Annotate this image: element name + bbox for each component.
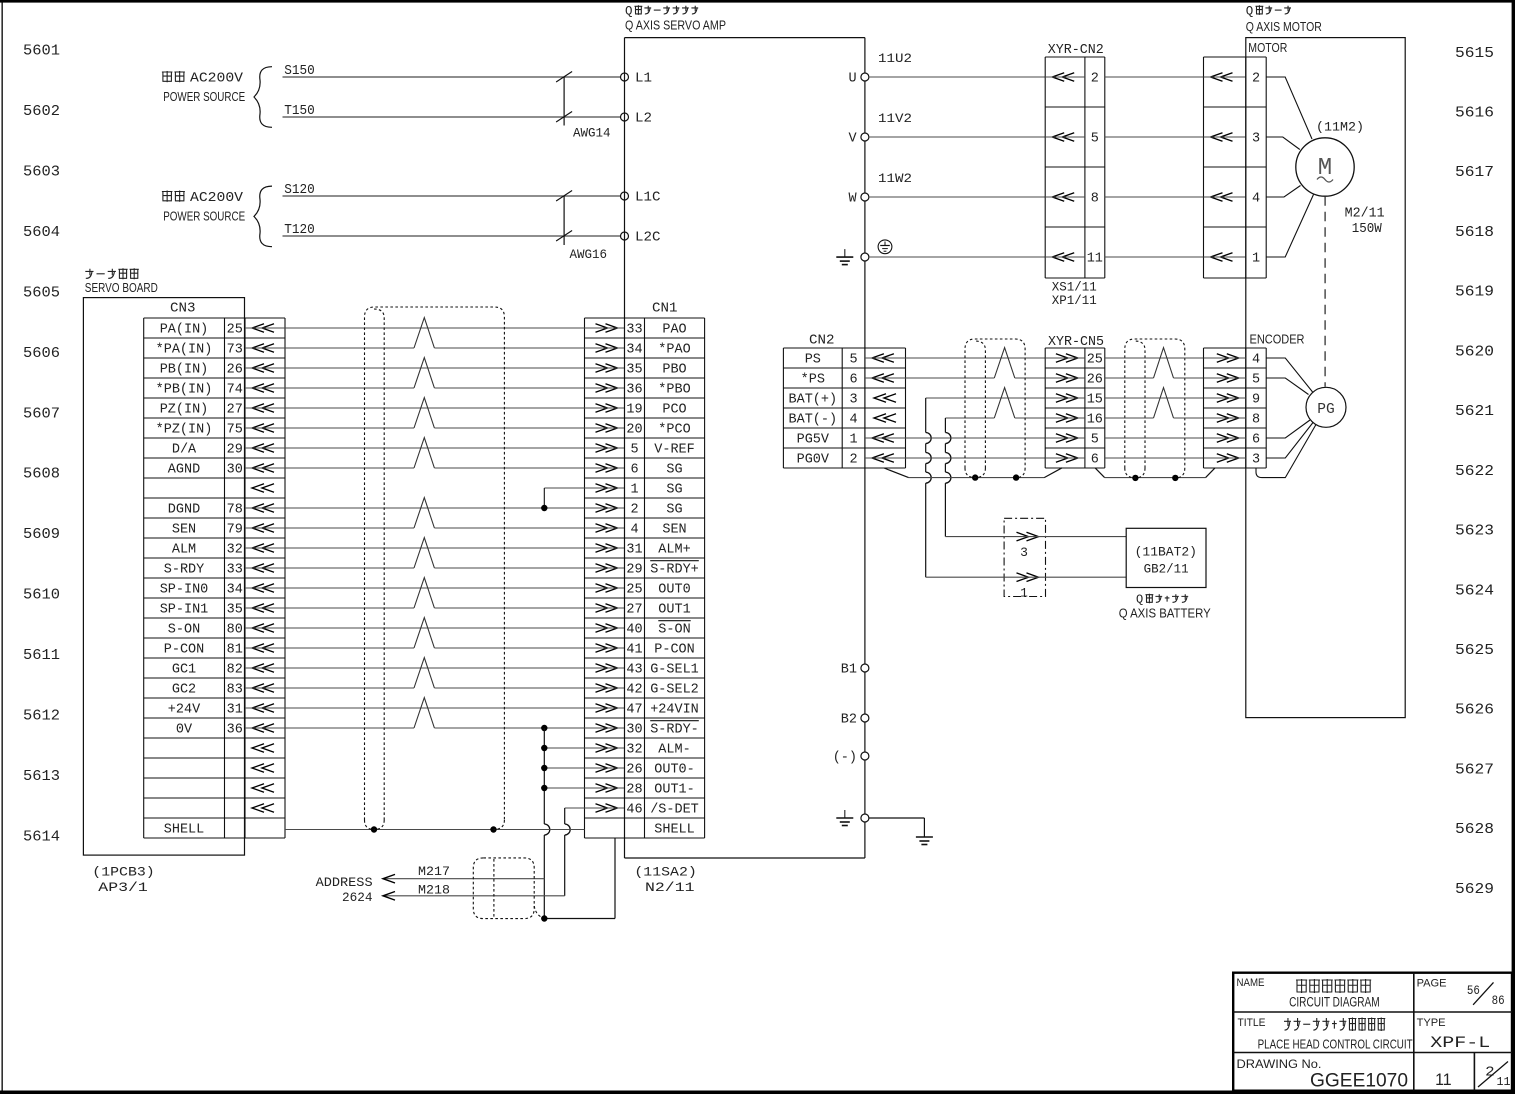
motor connector pin 4 (1204, 192, 1261, 207)
wire shield drain to CN1 shell bottom (544, 838, 615, 919)
terminal PE with ground symbol (836, 249, 869, 265)
title block TYPE cell XPF-L (1417, 1017, 1491, 1052)
svg-text:6: 6 (849, 373, 857, 388)
svg-text:2: 2 (1252, 72, 1260, 87)
CN3 pin 75 *PZ(IN) (156, 423, 243, 438)
svg-text:V: V (848, 132, 857, 147)
CN3 row 19 receptacle arrow (252, 684, 274, 693)
svg-text:GC2: GC2 (172, 683, 196, 698)
CN1 row 10 plug arrow (585, 504, 625, 513)
CN3 row 21 receptacle arrow (252, 724, 274, 733)
svg-text:6: 6 (630, 463, 638, 478)
svg-text:PAGE: PAGE (1417, 977, 1447, 989)
svg-text:25: 25 (1087, 353, 1103, 368)
wire XYR-CN2 to motor connector row 1 (1105, 76, 1204, 78)
wire encoder pin5 to PG (1266, 378, 1308, 395)
svg-text:S-ON: S-ON (168, 623, 200, 638)
svg-text:SHELL: SHELL (164, 823, 205, 838)
wire row 7 (245, 447, 585, 449)
svg-text:AGND: AGND (168, 463, 200, 478)
svg-text:32: 32 (626, 743, 642, 758)
wire motor pin1 to motor (1266, 195, 1313, 258)
svg-text:PLACE HEAD CONTROL CIRCUIT: PLACE HEAD CONTROL CIRCUIT (1258, 1036, 1413, 1051)
encoder pin 3 (1204, 453, 1261, 468)
node shield drain left (371, 826, 377, 832)
XYR-CN5 pin 16 (1045, 413, 1103, 428)
svg-text:47: 47 (626, 703, 642, 718)
battery label Q axis battery (1119, 593, 1212, 621)
svg-text:PB(IN): PB(IN) (160, 363, 209, 378)
CN3 row 3 receptacle arrow (252, 364, 274, 373)
svg-text:82: 82 (227, 663, 243, 678)
wire battery pin1 to battery box (1046, 576, 1127, 578)
svg-text:150W: 150W (1352, 222, 1383, 237)
CN3 pin 81 P-CON (164, 643, 243, 658)
CN3 row 20 receptacle arrow (252, 704, 274, 713)
svg-text:1: 1 (849, 433, 857, 448)
svg-text:*PCO: *PCO (658, 423, 690, 438)
svg-text:30: 30 (626, 723, 642, 738)
svg-text:5628: 5628 (1455, 822, 1494, 838)
wire M218 to address bus (383, 883, 565, 901)
encoder pin 8 (1204, 413, 1261, 428)
CN1 pin 2 SG (630, 503, 682, 518)
CN1 pin 43 G-SEL1 (626, 663, 698, 678)
svg-text:8: 8 (1091, 192, 1099, 207)
CN1 pin 20 *PCO (626, 423, 690, 438)
CN1 row 6 plug arrow (585, 424, 625, 433)
CN3 row 7 receptacle arrow (252, 444, 274, 453)
CN3 row 13 receptacle arrow (252, 564, 274, 573)
svg-text:35: 35 (227, 603, 243, 618)
CN1 row 21 plug arrow (585, 724, 625, 733)
svg-text:CN2: CN2 (809, 333, 835, 349)
CN1 pin shell SHELL (654, 823, 695, 838)
ground earth symbol right (916, 837, 933, 845)
CN1 row 13 plug arrow (585, 564, 625, 573)
svg-text:N2/11: N2/11 (645, 880, 695, 895)
XYR-CN2 pin 11 (1045, 252, 1103, 267)
svg-text:5616: 5616 (1455, 106, 1494, 122)
svg-text:OUT0-: OUT0- (654, 763, 695, 778)
svg-text:40: 40 (626, 623, 642, 638)
svg-text:5617: 5617 (1455, 165, 1494, 181)
battery connector pin 1 arrow (926, 573, 1046, 601)
Q axis motor box (1246, 38, 1405, 718)
CN3 pin 83 GC2 (172, 683, 243, 698)
amp designator (11SA2) N2/11 (634, 865, 696, 895)
CN2 pin 3 BAT(+) (789, 393, 858, 408)
svg-text:PS: PS (805, 353, 821, 368)
svg-text:M: M (1318, 155, 1332, 182)
CN3 row 4 receptacle arrow (252, 384, 274, 393)
wire XYR-CN5 pin25 to encoder pin4 (1105, 357, 1204, 359)
wire battery(+) riser to XYR-CN5 pin15 (926, 398, 1045, 577)
CN3 pin 36 0V (176, 723, 243, 738)
wire T120 (283, 223, 621, 238)
svg-text:POWER SOURCE: POWER SOURCE (163, 90, 245, 104)
battery connector (dash-dot box) (1004, 518, 1045, 596)
motor connector table frame (1204, 57, 1267, 278)
motor rating M2/11 150W (1345, 207, 1385, 238)
svg-text:83: 83 (227, 683, 243, 698)
wire CN1 pin1 SG stub to node (544, 488, 584, 508)
svg-text:81: 81 (227, 643, 243, 658)
svg-text:ALM+: ALM+ (658, 543, 690, 558)
svg-text:36: 36 (626, 383, 642, 398)
shield drain wire XYR-CN5 to encoder (1095, 468, 1215, 478)
line number column right 5615-5629 (1455, 46, 1494, 898)
CN1 pin 29 S-RDY+ (626, 561, 698, 578)
wire encoder shield drain to PG (1256, 425, 1316, 478)
terminal B1 (841, 663, 869, 678)
CN3 pin 80 S-ON (168, 623, 243, 638)
wire PE amp to XYR-CN2 (869, 256, 1045, 258)
svg-text:(11M2): (11M2) (1316, 120, 1364, 135)
terminal B2 (841, 713, 869, 728)
svg-text:16: 16 (1087, 413, 1103, 428)
svg-text:SEN: SEN (172, 523, 196, 538)
svg-text:5624: 5624 (1455, 583, 1494, 599)
CN1 pin 35 PBO (626, 363, 686, 378)
wire row 16 (245, 627, 585, 629)
svg-text:PAO: PAO (662, 323, 686, 338)
CN3 pin 27 PZ(IN) (160, 403, 243, 418)
svg-text:26: 26 (227, 363, 243, 378)
svg-text:32: 32 (227, 543, 243, 558)
terminal L2C (621, 231, 661, 246)
svg-text:31: 31 (227, 703, 243, 718)
svg-text:G-SEL2: G-SEL2 (650, 683, 699, 698)
svg-text:PG0V: PG0V (797, 453, 830, 468)
svg-text:1: 1 (1252, 252, 1260, 267)
power source 2 brace (254, 186, 272, 247)
svg-text:CIRCUIT DIAGRAM: CIRCUIT DIAGRAM (1289, 995, 1380, 1010)
CN3 row 2 receptacle arrow (252, 344, 274, 353)
svg-text:86: 86 (1492, 993, 1505, 1008)
terminal U (848, 72, 868, 87)
svg-text:SP-IN0: SP-IN0 (160, 583, 209, 598)
CN1 pin 31 ALM+ (626, 543, 690, 558)
svg-text:S-RDY-: S-RDY- (650, 723, 699, 738)
XYR-CN2 pin 8 (1045, 192, 1099, 207)
motor connector pin 3 (1204, 132, 1261, 147)
XYR-CN5 pin 15 (1045, 393, 1103, 408)
CN1 row 15 plug arrow (585, 604, 625, 613)
line number column left 5601-5614 (23, 44, 60, 846)
svg-text:5622: 5622 (1455, 464, 1494, 480)
svg-text:2: 2 (630, 503, 638, 518)
svg-text:PCO: PCO (662, 403, 686, 418)
wire pair lower row 17 with twist crossover (245, 618, 585, 648)
servo board designator (1PCB3) AP3/1 (92, 865, 154, 895)
svg-text:27: 27 (626, 603, 642, 618)
wire encoder pin3 to PG (1266, 423, 1313, 459)
wire pair lower row 19 with twist crossover (245, 658, 585, 688)
CN3 row 18 receptacle arrow (252, 664, 274, 673)
CN1 pin 32 ALM- (626, 743, 690, 758)
CN1 row 4 plug arrow (585, 384, 625, 393)
wire *PS to XYR-CN5 pin26 with twist (906, 348, 1046, 378)
XYR-CN5 pin 5 (1045, 433, 1099, 448)
wire PG0V to XYR-CN5 pin6 (906, 457, 1046, 459)
svg-text:0V: 0V (176, 723, 193, 738)
connector CN3 table frame (144, 318, 285, 838)
svg-text:PBO: PBO (662, 363, 686, 378)
CN3 row 14 receptacle arrow (252, 584, 274, 593)
svg-text:ALM: ALM (172, 543, 196, 558)
wire /S-DET stub and vertical to M218 (565, 808, 585, 896)
wire pair lower row 4 with twist crossover (245, 358, 585, 388)
svg-text:3: 3 (1020, 545, 1028, 560)
CN3 row 24 receptacle arrow (252, 784, 274, 793)
svg-text:5618: 5618 (1455, 225, 1494, 241)
CN2 row 5 receptacle arrow (865, 434, 906, 443)
svg-text:GC1: GC1 (172, 663, 196, 678)
CN3 row 15 receptacle arrow (252, 604, 274, 613)
svg-text:33: 33 (626, 323, 642, 338)
title block PAGE cell 56/86 (1417, 977, 1505, 1008)
CN1 row 7 plug arrow (585, 444, 625, 453)
CN1 pin 25 OUT0 (626, 583, 690, 598)
wire stub to CN1 row 24 (544, 787, 584, 789)
CN1 pin 27 OUT1 (626, 603, 690, 618)
svg-text:41: 41 (626, 643, 642, 658)
svg-text:+24VIN: +24VIN (650, 703, 699, 718)
svg-text:2: 2 (1091, 72, 1099, 87)
svg-text:42: 42 (626, 683, 642, 698)
connector XYR-CN2 table frame (1045, 57, 1105, 278)
wire pair lower row 6 with twist crossover (245, 398, 585, 428)
wire PS to XYR-CN5 pin25 (906, 357, 1046, 359)
XYR-CN2 pin 2 (1045, 72, 1099, 87)
svg-text:31: 31 (626, 543, 642, 558)
svg-text:TITLE: TITLE (1238, 1017, 1266, 1029)
svg-text:S-ON: S-ON (658, 623, 690, 638)
cable bundle AWG14 (556, 72, 611, 141)
svg-text:5625: 5625 (1455, 643, 1494, 659)
svg-text:(11BAT2): (11BAT2) (1135, 545, 1197, 560)
CN3 row 11 receptacle arrow (252, 524, 274, 533)
CN1 row 1 plug arrow (585, 324, 625, 333)
wire battery(-) riser to XYR-CN5 pin16 with twist (945, 388, 1045, 537)
svg-text:28: 28 (626, 783, 642, 798)
CN3 pin 73 *PA(IN) (156, 343, 243, 358)
battery GB2/11 box (1126, 528, 1206, 587)
svg-text:4: 4 (1252, 192, 1260, 207)
CN3 pin 31 +24V (168, 703, 243, 718)
svg-text:XP1/11: XP1/11 (1052, 293, 1097, 308)
svg-text:35: 35 (626, 363, 642, 378)
svg-text:Q: Q (1246, 5, 1254, 19)
CN2 pin 4 BAT(-) (789, 413, 858, 428)
wire S150 (283, 64, 621, 79)
svg-text:3: 3 (1252, 453, 1260, 468)
CN1 pin 47 +24VIN (626, 703, 698, 718)
CN1 row 9 plug arrow (585, 484, 625, 493)
cable shield (dashed) XYR-CN5 to encoder (1125, 339, 1185, 478)
svg-text:S-RDY+: S-RDY+ (650, 563, 699, 578)
wire XYR-CN2 to motor connector row 2 (1105, 136, 1204, 138)
CN1 pin 6 SG (630, 463, 682, 478)
encoder pin 4 (1204, 353, 1261, 368)
CN1 pin 34 *PAO (626, 343, 690, 358)
encoder pin 5 (1204, 373, 1261, 388)
servo board AP3/1 label (85, 268, 158, 295)
svg-text:2624: 2624 (342, 890, 373, 905)
svg-text:8: 8 (1252, 413, 1260, 428)
svg-text:/S-DET: /S-DET (650, 803, 699, 818)
XYR-CN5 pin 26 (1045, 373, 1103, 388)
terminal (-) (833, 751, 869, 766)
svg-text:M218: M218 (418, 883, 450, 898)
svg-text:*PAO: *PAO (658, 343, 690, 358)
svg-text:GGEE1070: GGEE1070 (1310, 1071, 1408, 1092)
svg-text:SG: SG (666, 463, 682, 478)
CN3 row 8 receptacle arrow (252, 464, 274, 473)
svg-text:MOTOR: MOTOR (1248, 41, 1287, 55)
svg-text:V-REF: V-REF (654, 443, 695, 458)
svg-text:56: 56 (1467, 983, 1480, 998)
svg-text:5613: 5613 (23, 769, 60, 785)
svg-text:SP-IN1: SP-IN1 (160, 603, 209, 618)
svg-text:5621: 5621 (1455, 404, 1494, 420)
CN1 pin 30 S-RDY- (626, 721, 698, 738)
wire XYR-CN5 pin6 to encoder pin3 (1105, 457, 1204, 459)
terminal V (848, 132, 868, 147)
wire frame ground to earth (869, 818, 925, 837)
wire row 18 (245, 667, 585, 669)
svg-text:ENCODER: ENCODER (1250, 333, 1305, 347)
svg-text:Q: Q (625, 5, 633, 19)
XYR-CN5 pin 6 (1045, 453, 1099, 468)
svg-text:1: 1 (630, 483, 638, 498)
CN2 row 1 receptacle arrow (865, 354, 906, 363)
svg-text:B2: B2 (841, 713, 857, 728)
svg-text:5602: 5602 (23, 104, 60, 120)
svg-text:PZ(IN): PZ(IN) (160, 403, 209, 418)
wire motor pin3 to motor (1266, 137, 1300, 150)
CN3 row 12 receptacle arrow (252, 544, 274, 553)
svg-text:P-CON: P-CON (164, 643, 205, 658)
svg-text:20: 20 (626, 423, 642, 438)
node junction at bus y=748 (541, 745, 547, 751)
title block (1233, 973, 1512, 1091)
wire row 12 (245, 547, 585, 549)
svg-text:29: 29 (626, 563, 642, 578)
CN2 row 6 receptacle arrow (865, 454, 906, 463)
svg-text:5: 5 (630, 443, 638, 458)
svg-text:26: 26 (626, 763, 642, 778)
CN1 row 3 plug arrow (585, 364, 625, 373)
CN1 row 14 plug arrow (585, 584, 625, 593)
svg-text:XYR-CN2: XYR-CN2 (1048, 43, 1104, 58)
CN2 pin 1 PG5V (797, 433, 858, 448)
svg-text:5609: 5609 (23, 527, 60, 543)
svg-text:TYPE: TYPE (1417, 1017, 1446, 1029)
svg-text:3: 3 (1252, 132, 1260, 147)
svg-text:AC200V: AC200V (190, 191, 244, 206)
CN3 pin 35 SP-IN1 (160, 603, 243, 618)
svg-text:*PA(IN): *PA(IN) (156, 343, 213, 358)
CN1 pin 4 SEN (630, 523, 686, 538)
svg-text:ADDRESS: ADDRESS (316, 875, 373, 890)
wire row 14 (245, 587, 585, 589)
svg-text:73: 73 (227, 343, 243, 358)
svg-text:15: 15 (1087, 393, 1103, 408)
wire motor pin4 to motor (1266, 186, 1300, 198)
svg-text:27: 27 (227, 403, 243, 418)
svg-text:11V2: 11V2 (878, 111, 912, 126)
terminal L2 (621, 112, 653, 127)
CN1 row 8 plug arrow (585, 464, 625, 473)
svg-text:34: 34 (626, 343, 642, 358)
svg-text:OUT1-: OUT1- (654, 783, 695, 798)
wire 11V2 amp to XYR-CN2 (869, 111, 1045, 137)
node shield dot 4 (1172, 475, 1178, 481)
CN1 pin 28 OUT1- (626, 783, 694, 798)
svg-text:SG: SG (666, 503, 682, 518)
node shield dot 3 (1132, 475, 1138, 481)
CN1 row 20 plug arrow (585, 704, 625, 713)
svg-text:U: U (848, 72, 856, 87)
wire encoder pin6 to PG (1266, 420, 1310, 438)
motor connector pin 2 (1204, 72, 1261, 87)
wire pair lower row 2 with twist crossover (245, 318, 585, 348)
svg-text:5601: 5601 (23, 44, 60, 60)
CN3 row 9 receptacle arrow (252, 484, 274, 493)
CN1 pin 26 OUT0- (626, 763, 694, 778)
wire XYR-CN5 pin5 to encoder pin6 (1105, 437, 1204, 439)
CN2 row 4 receptacle arrow (874, 414, 896, 423)
CN3 row 16 receptacle arrow (252, 624, 274, 633)
svg-text:4: 4 (630, 523, 638, 538)
node SG junction on DGND wire (541, 505, 547, 511)
svg-text:75: 75 (227, 423, 243, 438)
svg-text:PG5V: PG5V (797, 433, 830, 448)
svg-text:CN3: CN3 (170, 301, 196, 317)
CN3 pin 82 GC1 (172, 663, 243, 678)
svg-text:26: 26 (1087, 373, 1103, 388)
wire stub to CN1 row 23 (544, 767, 584, 769)
svg-text:Q AXIS MOTOR: Q AXIS MOTOR (1246, 20, 1322, 34)
wire row 20 (245, 707, 585, 709)
CN3 pin 32 ALM (172, 543, 243, 558)
svg-text:DGND: DGND (168, 503, 200, 518)
CN1 pin 41 P-CON (626, 643, 694, 658)
wire pair lower row 13 with twist crossover (245, 538, 585, 568)
XYR-CN2 pin 5 (1045, 132, 1099, 147)
CN2 row 2 receptacle arrow (865, 374, 906, 383)
CN3 pin 30 AGND (168, 463, 243, 478)
svg-text:Q: Q (1136, 593, 1143, 607)
svg-text:M217: M217 (418, 864, 450, 879)
power source 1: AC200V label (162, 71, 245, 104)
svg-text:5623: 5623 (1455, 524, 1494, 540)
encoder pin 6 (1204, 433, 1261, 448)
svg-text:80: 80 (227, 623, 243, 638)
connector XYR-CN5 table frame (1045, 348, 1105, 468)
servo amp label (625, 5, 726, 33)
svg-text:S-RDY: S-RDY (164, 563, 205, 578)
CN1 pin 36 *PBO (626, 383, 690, 398)
Q axis servo amp box N2/11 (625, 38, 865, 858)
CN3 row 22 receptacle arrow (252, 744, 274, 753)
terminal frame ground with symbol (836, 810, 869, 826)
title block NAME cell (1237, 977, 1380, 1010)
node 0V junction (541, 725, 547, 731)
motor box labels (1246, 5, 1322, 56)
